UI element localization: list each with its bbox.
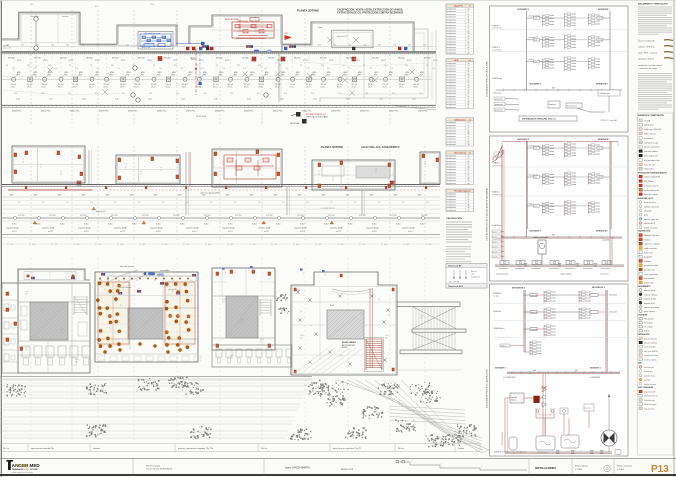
svg-text:Ø160 PVC: Ø160 PVC bbox=[360, 111, 370, 113]
svg-text:VE-750: VE-750 bbox=[34, 58, 42, 60]
svg-text:P9: P9 bbox=[279, 65, 281, 67]
svg-text:Ø90: Ø90 bbox=[14, 93, 17, 95]
svg-text:dúplex: dúplex bbox=[644, 331, 650, 333]
svg-text:Ø125: Ø125 bbox=[275, 87, 279, 89]
svg-text:P27: P27 bbox=[237, 65, 240, 67]
svg-text:lavabo: lavabo bbox=[572, 69, 577, 71]
svg-text:Ø160 PVC: Ø160 PVC bbox=[302, 111, 312, 113]
svg-text:lavabo: lavabo bbox=[572, 213, 577, 215]
svg-text:panel 4: panel 4 bbox=[493, 246, 498, 248]
svg-text:2,50: 2,50 bbox=[201, 68, 204, 70]
svg-text:PVC110: PVC110 bbox=[235, 215, 242, 217]
svg-text:Ø125: Ø125 bbox=[199, 60, 204, 62]
svg-text:PVC110: PVC110 bbox=[173, 215, 180, 217]
svg-text:p=2%: p=2% bbox=[12, 231, 17, 233]
svg-text:1,20: 1,20 bbox=[214, 99, 218, 101]
svg-text:28: 28 bbox=[467, 47, 469, 49]
svg-text:lavabo inod.: lavabo inod. bbox=[447, 166, 457, 168]
svg-text:Ø125: Ø125 bbox=[355, 60, 360, 62]
svg-text:1,60: 1,60 bbox=[96, 44, 99, 46]
svg-text:colector s.radiante: colector s.radiante bbox=[644, 243, 661, 246]
svg-text:P24: P24 bbox=[174, 65, 177, 67]
svg-text:MONTANTE 1: MONTANTE 1 bbox=[530, 230, 542, 233]
svg-text:Ø90: Ø90 bbox=[311, 93, 314, 95]
svg-text:P6: P6 bbox=[6, 65, 8, 67]
svg-text:2,0: 2,0 bbox=[125, 166, 127, 168]
svg-text:Ø125: Ø125 bbox=[43, 60, 48, 62]
svg-text:P21: P21 bbox=[111, 65, 114, 67]
svg-text:lavabo: lavabo bbox=[572, 155, 577, 157]
svg-text:Ø160 PVC: Ø160 PVC bbox=[389, 111, 399, 113]
svg-text:lavabo inod.: lavabo inod. bbox=[447, 139, 457, 141]
svg-text:lavabo: lavabo bbox=[572, 175, 577, 177]
svg-text:depósito PCI: depósito PCI bbox=[337, 35, 348, 38]
svg-text:arqueta 40x40: arqueta 40x40 bbox=[366, 227, 380, 230]
svg-text:cuartos: cuartos bbox=[458, 447, 464, 450]
svg-text:ESPACIO técnico · sala de ca: ESPACIO técnico · sala de calderas bbox=[494, 451, 526, 454]
svg-text:1,60: 1,60 bbox=[141, 44, 144, 46]
svg-text:lavabo: lavabo bbox=[572, 173, 577, 175]
svg-text:Ø90: Ø90 bbox=[176, 93, 179, 95]
svg-text:lavabo: lavabo bbox=[572, 25, 577, 27]
svg-text:radiador aluminio: radiador aluminio bbox=[644, 235, 660, 237]
svg-text:Ø160 PVC: Ø160 PVC bbox=[157, 111, 167, 113]
svg-text:2,50: 2,50 bbox=[411, 68, 414, 70]
svg-text:lavabo inod.: lavabo inod. bbox=[447, 93, 457, 95]
svg-text:lavabo: lavabo bbox=[596, 208, 601, 210]
svg-text:1,60: 1,60 bbox=[51, 44, 54, 46]
svg-text:Ø40: Ø40 bbox=[274, 194, 277, 196]
svg-text:1,20: 1,20 bbox=[49, 99, 53, 101]
svg-text:28: 28 bbox=[467, 101, 469, 103]
svg-text:Ø125: Ø125 bbox=[251, 60, 256, 62]
svg-text:2,4: 2,4 bbox=[378, 299, 380, 301]
svg-text:Ø125: Ø125 bbox=[69, 60, 74, 62]
svg-text:24: 24 bbox=[467, 14, 469, 16]
svg-text:7,80: 7,80 bbox=[252, 244, 255, 246]
svg-text:PVC110: PVC110 bbox=[204, 215, 211, 217]
svg-text:SANEAMIENTO: SANEAMIENTO bbox=[638, 285, 651, 288]
svg-text:P0: P0 bbox=[300, 65, 302, 67]
svg-text:1,00: 1,00 bbox=[333, 44, 336, 46]
svg-text:lavabo: lavabo bbox=[551, 314, 556, 316]
svg-text:lavabo inod.: lavabo inod. bbox=[447, 66, 457, 68]
svg-text:vaso exp.: vaso exp. bbox=[585, 408, 592, 410]
svg-text:panel solar: panel solar bbox=[644, 282, 654, 284]
svg-text:lavabo: lavabo bbox=[572, 66, 577, 68]
svg-text:lavabo: lavabo bbox=[596, 153, 601, 155]
svg-text:interacumulador: interacumulador bbox=[533, 236, 548, 239]
svg-text:17: 17 bbox=[467, 196, 469, 198]
svg-text:Ø40: Ø40 bbox=[178, 194, 181, 196]
svg-text:31: 31 bbox=[467, 130, 469, 132]
svg-text:tubería agua fría: tubería agua fría bbox=[644, 218, 660, 221]
svg-text:1,20: 1,20 bbox=[148, 99, 152, 101]
svg-text:T2: T2 bbox=[136, 280, 138, 282]
svg-text:Calefacción: Calefacción bbox=[454, 119, 465, 121]
svg-text:p=4%: p=4% bbox=[408, 231, 413, 233]
svg-text:18,6 m: 18,6 m bbox=[261, 448, 267, 450]
svg-text:dúplex: dúplex bbox=[529, 59, 534, 61]
svg-text:agua fría y acs viviendas T3 y: agua fría y acs viviendas T3 y T2 bbox=[333, 447, 361, 450]
svg-text:Ø160 PVC: Ø160 PVC bbox=[244, 111, 254, 113]
svg-text:1,20: 1,20 bbox=[247, 99, 251, 101]
svg-text:PVC110: PVC110 bbox=[111, 215, 118, 217]
svg-text:lavabo: lavabo bbox=[572, 184, 577, 186]
svg-text:lavabo: lavabo bbox=[572, 210, 577, 212]
svg-text:lavabo inod.: lavabo inod. bbox=[447, 210, 457, 212]
svg-text:lavabo: lavabo bbox=[551, 309, 556, 311]
svg-text:caldera c.: caldera c. bbox=[501, 345, 508, 347]
svg-text:Ø63: Ø63 bbox=[552, 88, 555, 90]
svg-text:Ø90: Ø90 bbox=[419, 93, 422, 95]
svg-text:lavabo: lavabo bbox=[596, 179, 601, 181]
svg-text:Ø125: Ø125 bbox=[368, 87, 372, 89]
svg-text:LL.1: LL.1 bbox=[534, 148, 537, 150]
svg-text:INST. ESPECIALES: INST. ESPECIALES bbox=[638, 386, 654, 389]
svg-text:17: 17 bbox=[467, 66, 469, 68]
svg-text:2,0: 2,0 bbox=[60, 173, 62, 175]
svg-text:T2: T2 bbox=[100, 280, 102, 282]
svg-text:lavabo inod.: lavabo inod. bbox=[447, 19, 457, 21]
svg-text:1,00: 1,00 bbox=[81, 44, 84, 46]
svg-text:rejilla retorno: rejilla retorno bbox=[644, 133, 656, 136]
svg-text:lavabo: lavabo bbox=[572, 152, 577, 154]
svg-text:lavabo inod.: lavabo inod. bbox=[447, 63, 457, 65]
svg-text:AF-01 UTA: AF-01 UTA bbox=[142, 46, 151, 49]
svg-text:lavabo: lavabo bbox=[550, 40, 555, 42]
svg-text:recirculación: recirculación bbox=[531, 267, 541, 270]
svg-text:cocina: cocina bbox=[598, 177, 603, 179]
svg-text:Ø40: Ø40 bbox=[58, 194, 61, 196]
svg-text:lavabo: lavabo bbox=[537, 345, 542, 347]
svg-text:lavabo: lavabo bbox=[550, 180, 555, 182]
svg-text:lavabo inod.: lavabo inod. bbox=[447, 88, 457, 90]
svg-text:SYSTEM: SYSTEM bbox=[30, 469, 38, 471]
svg-text:lavabo inod.: lavabo inod. bbox=[447, 74, 457, 76]
svg-text:dúplex: dúplex bbox=[529, 203, 534, 205]
svg-text:CALEFACCIÓN: CALEFACCIÓN bbox=[446, 217, 462, 220]
svg-text:12: 12 bbox=[467, 172, 469, 174]
svg-text:c.1: c.1 bbox=[318, 171, 320, 173]
svg-text:2,50: 2,50 bbox=[243, 68, 246, 70]
svg-text:Ø110: Ø110 bbox=[36, 223, 40, 225]
svg-text:Ø125: Ø125 bbox=[42, 87, 46, 89]
svg-text:lavabo inod.: lavabo inod. bbox=[447, 141, 457, 143]
svg-text:Ø90: Ø90 bbox=[122, 93, 125, 95]
svg-text:Ø125: Ø125 bbox=[407, 60, 412, 62]
svg-text:2,50: 2,50 bbox=[12, 68, 15, 70]
svg-text:45: 45 bbox=[467, 136, 469, 138]
svg-text:lavabo inod.: lavabo inod. bbox=[447, 85, 457, 87]
svg-text:p=4%: p=4% bbox=[300, 231, 305, 233]
svg-text:Ø160 PVC: Ø160 PVC bbox=[186, 111, 196, 113]
svg-text:lavabo inod.: lavabo inod. bbox=[447, 68, 457, 70]
svg-text:10: 10 bbox=[467, 155, 469, 157]
svg-text:lavabo inod.: lavabo inod. bbox=[447, 204, 457, 206]
svg-text:p=3%: p=3% bbox=[372, 231, 377, 233]
svg-text:vaso expansión: vaso expansión bbox=[644, 274, 658, 276]
svg-text:Ø125: Ø125 bbox=[104, 87, 108, 89]
svg-text:a 1/150: a 1/150 bbox=[575, 469, 583, 471]
svg-text:colector enterrado: colector enterrado bbox=[644, 306, 659, 309]
svg-text:MONTANTE 3: MONTANTE 3 bbox=[592, 286, 606, 289]
svg-text:6,80: 6,80 bbox=[98, 244, 101, 246]
svg-text:Ø160 PVC: Ø160 PVC bbox=[331, 111, 341, 113]
svg-text:aljibe: aljibe bbox=[318, 27, 322, 29]
svg-text:lavabo inod.: lavabo inod. bbox=[447, 90, 457, 92]
svg-text:Ø40: Ø40 bbox=[130, 194, 133, 196]
svg-text:c.1: c.1 bbox=[160, 167, 162, 169]
svg-text:Ø20: Ø20 bbox=[25, 293, 28, 295]
svg-text:Ø110: Ø110 bbox=[396, 223, 400, 225]
svg-text:turismo, 38ª plan MORISCADOS: turismo, 38ª plan MORISCADOS bbox=[146, 468, 173, 471]
svg-text:llave de paso: llave de paso bbox=[644, 202, 657, 204]
svg-text:conducto chapa: conducto chapa bbox=[644, 141, 659, 144]
svg-text:lavabo inod.: lavabo inod. bbox=[447, 107, 457, 109]
svg-text:2,50: 2,50 bbox=[306, 68, 309, 70]
svg-text:rampa 18%: rampa 18% bbox=[3, 47, 12, 49]
svg-text:lavabo: lavabo bbox=[550, 206, 555, 208]
svg-text:1,00: 1,00 bbox=[378, 44, 381, 46]
svg-text:c.1: c.1 bbox=[424, 161, 426, 163]
svg-text:arqueta 40x40: arqueta 40x40 bbox=[294, 227, 308, 230]
svg-text:1,30: 1,30 bbox=[363, 44, 366, 46]
svg-text:p=3%: p=3% bbox=[264, 231, 269, 233]
svg-text:Jaime GARCÍA MARTÍN: Jaime GARCÍA MARTÍN bbox=[285, 466, 310, 469]
svg-text:1,20: 1,20 bbox=[346, 99, 350, 101]
svg-text:8,80: 8,80 bbox=[10, 244, 13, 246]
svg-text:lavabo: lavabo bbox=[537, 353, 542, 355]
svg-text:lavabo inod.: lavabo inod. bbox=[447, 161, 457, 163]
svg-text:MONTANTE 4: MONTANTE 4 bbox=[596, 230, 608, 233]
svg-text:Ø20: Ø20 bbox=[420, 317, 423, 319]
svg-text:24: 24 bbox=[467, 128, 469, 130]
svg-text:2,0: 2,0 bbox=[424, 163, 426, 165]
svg-text:2,50: 2,50 bbox=[390, 68, 393, 70]
svg-text:Ø40: Ø40 bbox=[394, 194, 397, 196]
svg-text:lavabo inod.: lavabo inod. bbox=[447, 122, 457, 124]
svg-text:10: 10 bbox=[467, 8, 469, 10]
svg-text:Ø20: Ø20 bbox=[40, 311, 43, 313]
svg-text:Ø20: Ø20 bbox=[230, 357, 233, 359]
svg-text:h=2,5: h=2,5 bbox=[240, 319, 244, 321]
svg-text:lavabo inod.: lavabo inod. bbox=[447, 17, 457, 19]
svg-text:3,80: 3,80 bbox=[230, 244, 233, 246]
svg-text:tubería ACS: tubería ACS bbox=[644, 222, 655, 225]
svg-text:lavabo: lavabo bbox=[572, 149, 577, 151]
svg-text:lavabo: lavabo bbox=[572, 47, 577, 49]
svg-text:AGUA FRÍA, ACS, SANEAMIENTO: AGUA FRÍA, ACS, SANEAMIENTO bbox=[361, 146, 400, 149]
svg-text:2,50: 2,50 bbox=[285, 68, 288, 70]
svg-text:2,50: 2,50 bbox=[75, 68, 78, 70]
svg-text:lavabo inod.: lavabo inod. bbox=[447, 33, 457, 35]
svg-text:MED: MED bbox=[30, 463, 41, 468]
svg-text:lavabo inod.: lavabo inod. bbox=[447, 177, 457, 179]
svg-text:T3 3 dorm.: T3 3 dorm. bbox=[644, 322, 654, 325]
svg-text:lavabo: lavabo bbox=[551, 317, 556, 319]
svg-text:lavabo: lavabo bbox=[572, 35, 577, 37]
svg-text:lavabo inod.: lavabo inod. bbox=[447, 133, 457, 135]
svg-text:26: 26 bbox=[467, 144, 469, 146]
svg-text:suelo radiante: suelo radiante bbox=[644, 247, 657, 250]
svg-text:Ø125: Ø125 bbox=[381, 60, 386, 62]
svg-text:VIVIENDAS: VIVIENDAS bbox=[638, 314, 648, 317]
svg-text:central detección: central detección bbox=[644, 189, 659, 192]
svg-text:llave de gas: llave de gas bbox=[644, 371, 652, 373]
svg-text:P13: P13 bbox=[651, 464, 669, 475]
svg-text:PVC110: PVC110 bbox=[49, 215, 56, 217]
svg-text:Ø125: Ø125 bbox=[27, 87, 31, 89]
svg-text:26: 26 bbox=[467, 30, 469, 32]
svg-text:2,4: 2,4 bbox=[388, 315, 390, 317]
svg-text:VE-850: VE-850 bbox=[242, 58, 250, 60]
svg-text:VENTILACIÓN: VENTILACIÓN bbox=[638, 333, 650, 336]
svg-text:7,80: 7,80 bbox=[54, 244, 57, 246]
svg-text:lavabo inod.: lavabo inod. bbox=[447, 96, 457, 98]
svg-text:VENTILACIÓN SÓTANO: VENTILACIÓN SÓTANO bbox=[306, 116, 329, 119]
svg-text:aparcamiento vivienda T4b: aparcamiento vivienda T4b bbox=[31, 447, 54, 450]
svg-text:lavabo inod.: lavabo inod. bbox=[447, 104, 457, 106]
svg-text:2,50: 2,50 bbox=[159, 68, 162, 70]
svg-text:lavabo: lavabo bbox=[550, 59, 555, 61]
svg-text:arqueta 40x40: arqueta 40x40 bbox=[150, 227, 164, 230]
svg-text:termostato: termostato bbox=[644, 137, 654, 140]
svg-text:VE-150: VE-150 bbox=[190, 58, 198, 60]
svg-text:2,80: 2,80 bbox=[76, 244, 79, 246]
svg-text:MONTANTE 1: MONTANTE 1 bbox=[530, 83, 542, 86]
svg-text:arqueta 40x40: arqueta 40x40 bbox=[42, 227, 56, 230]
svg-text:lavabo: lavabo bbox=[596, 58, 601, 60]
svg-text:Ø125: Ø125 bbox=[399, 87, 403, 89]
svg-text:VE-850: VE-850 bbox=[8, 58, 16, 60]
svg-text:lavabo: lavabo bbox=[596, 15, 601, 17]
svg-text:lavabo: lavabo bbox=[551, 292, 556, 294]
svg-text:Ø40: Ø40 bbox=[202, 194, 205, 196]
svg-text:panel 6: panel 6 bbox=[493, 256, 498, 258]
svg-text:bomba calor: bomba calor bbox=[644, 270, 655, 272]
svg-text:17: 17 bbox=[467, 11, 469, 13]
svg-text:12,45: 12,45 bbox=[150, 4, 154, 6]
svg-text:BIE 25mm: BIE 25mm bbox=[644, 181, 654, 183]
svg-text:c.1: c.1 bbox=[60, 171, 62, 173]
svg-text:Ø110: Ø110 bbox=[228, 223, 232, 225]
svg-text:lavabo: lavabo bbox=[550, 148, 555, 150]
svg-text:lavabo: lavabo bbox=[596, 150, 601, 152]
svg-text:PVC110: PVC110 bbox=[390, 215, 397, 217]
svg-text:AISLAMIENTO Y VENTILACIÓN: AISLAMIENTO Y VENTILACIÓN bbox=[638, 3, 668, 6]
svg-text:31: 31 bbox=[467, 202, 469, 204]
svg-text:10: 10 bbox=[467, 63, 469, 65]
svg-text:VE-650: VE-650 bbox=[294, 58, 302, 60]
svg-text:lavabo: lavabo bbox=[572, 147, 577, 149]
svg-text:26,4 m: 26,4 m bbox=[398, 448, 404, 450]
svg-text:2,50: 2,50 bbox=[348, 68, 351, 70]
svg-text:difusor rotacional: difusor rotacional bbox=[644, 146, 660, 149]
svg-text:ud: ud bbox=[469, 60, 471, 62]
svg-text:MONTANTE 3: MONTANTE 3 bbox=[598, 8, 610, 11]
svg-text:Ø125: Ø125 bbox=[182, 87, 186, 89]
svg-text:● llave paso: ● llave paso bbox=[493, 92, 502, 94]
svg-text:arqueta 40x40: arqueta 40x40 bbox=[114, 227, 128, 230]
svg-text:Planta viviendas: Planta viviendas bbox=[617, 465, 632, 468]
svg-text:6,80: 6,80 bbox=[296, 244, 299, 246]
svg-text:31: 31 bbox=[467, 17, 469, 19]
svg-text:VE-350: VE-350 bbox=[372, 58, 380, 60]
svg-text:Ø90: Ø90 bbox=[149, 93, 152, 95]
svg-text:1,30: 1,30 bbox=[111, 44, 114, 46]
svg-text:Ø20: Ø20 bbox=[75, 361, 78, 363]
svg-text:lavabo inod.: lavabo inod. bbox=[447, 28, 457, 30]
svg-text:LL.1: LL.1 bbox=[534, 206, 537, 208]
svg-text:arqueta 40x40: arqueta 40x40 bbox=[186, 227, 200, 230]
svg-text:Ø110: Ø110 bbox=[60, 223, 64, 225]
svg-text:P12: P12 bbox=[132, 65, 135, 67]
svg-text:lavabo inod.: lavabo inod. bbox=[447, 202, 457, 204]
svg-text:0,80: 0,80 bbox=[362, 244, 365, 246]
svg-text:lavabo: lavabo bbox=[596, 64, 601, 66]
svg-text:Ø90: Ø90 bbox=[257, 93, 260, 95]
svg-text:P9: P9 bbox=[69, 65, 71, 67]
svg-text:lavabo inod.: lavabo inod. bbox=[447, 183, 457, 185]
svg-text:arqueta 40x40: arqueta 40x40 bbox=[330, 227, 344, 230]
svg-text:MONTANTE 3: MONTANTE 3 bbox=[598, 138, 610, 141]
svg-text:1,60: 1,60 bbox=[348, 44, 351, 46]
svg-text:PVC110: PVC110 bbox=[297, 215, 304, 217]
svg-text:lavabo inod.: lavabo inod. bbox=[447, 77, 457, 79]
svg-text:lavabo inod.: lavabo inod. bbox=[447, 196, 457, 198]
svg-text:purgador TS: purgador TS bbox=[471, 277, 480, 279]
svg-text:Ø160 PVC: Ø160 PVC bbox=[273, 111, 283, 113]
svg-text:Ø20: Ø20 bbox=[60, 331, 63, 333]
svg-text:detector humos: detector humos bbox=[644, 193, 658, 196]
svg-text:lavabo: lavabo bbox=[537, 347, 542, 349]
svg-text:lavabo inod.: lavabo inod. bbox=[447, 199, 457, 201]
svg-text:Ø63: Ø63 bbox=[552, 235, 555, 237]
svg-text:10: 10 bbox=[467, 193, 469, 195]
svg-text:c.1: c.1 bbox=[40, 164, 42, 166]
svg-text:Ø40: Ø40 bbox=[533, 370, 536, 372]
svg-text:lavabo: lavabo bbox=[596, 23, 601, 25]
svg-text:ud: ud bbox=[469, 6, 471, 8]
svg-text:Ø110: Ø110 bbox=[252, 223, 256, 225]
svg-text:lavabo: lavabo bbox=[572, 204, 577, 206]
svg-text:Ø25 - Ø63 PE: Ø25 - Ø63 PE bbox=[449, 282, 459, 284]
svg-text:pozo registro: pozo registro bbox=[644, 310, 655, 313]
svg-text:4,80: 4,80 bbox=[384, 244, 387, 246]
svg-text:lavabo inod.: lavabo inod. bbox=[447, 41, 457, 43]
svg-text:24: 24 bbox=[467, 199, 469, 201]
svg-text:45: 45 bbox=[467, 77, 469, 79]
svg-text:recirculación: recirculación bbox=[515, 267, 525, 270]
svg-text:5,80: 5,80 bbox=[142, 244, 145, 246]
svg-text:Ø90: Ø90 bbox=[41, 93, 44, 95]
svg-text:bajante pluvial: bajante pluvial bbox=[644, 298, 657, 301]
svg-text:acometida: acometida bbox=[160, 269, 170, 272]
svg-text:40: 40 bbox=[467, 183, 469, 185]
svg-text:T2: T2 bbox=[190, 280, 192, 282]
svg-text:extractor baños: extractor baños bbox=[644, 150, 658, 153]
svg-text:Ø125: Ø125 bbox=[352, 87, 356, 89]
svg-text:21: 21 bbox=[467, 44, 469, 46]
svg-text:38: 38 bbox=[467, 19, 469, 21]
svg-text:T4b 4 dorm.: T4b 4 dorm. bbox=[644, 318, 655, 321]
svg-text:calderas gas: calderas gas bbox=[237, 19, 248, 22]
svg-text:lavabo inod.: lavabo inod. bbox=[447, 128, 457, 130]
svg-text:P18: P18 bbox=[48, 65, 51, 67]
svg-text:Ø40: Ø40 bbox=[322, 194, 325, 196]
svg-text:bajante B7: bajante B7 bbox=[96, 210, 106, 213]
